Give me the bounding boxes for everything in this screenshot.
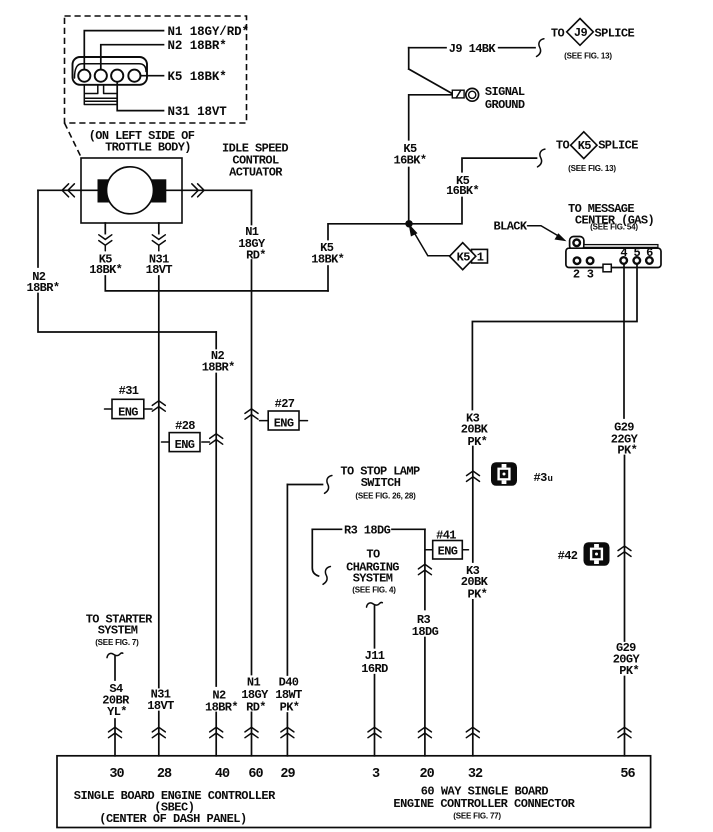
svg-text:SPLICE: SPLICE xyxy=(595,26,635,40)
svg-text:2: 2 xyxy=(573,267,580,281)
label N1 18GY RD* (lower) xyxy=(241,675,269,714)
inline connector marks on N1 xyxy=(245,409,258,419)
wire J9 14BK left segment xyxy=(409,47,446,49)
connector C1 cavity 1 xyxy=(78,70,90,82)
svg-text:SPLICE: SPLICE xyxy=(598,139,638,153)
svg-text:(SEE FIG. 77): (SEE FIG. 77) xyxy=(453,812,501,821)
svg-text:ACTUATOR: ACTUATOR xyxy=(229,166,283,180)
label N1 18GY RD* (upper) xyxy=(238,225,266,262)
wire N31 brush drop xyxy=(158,223,160,234)
svg-text:18BR*: 18BR* xyxy=(202,360,235,374)
svg-text:#31: #31 xyxy=(119,384,139,398)
connector C2 pin 5 xyxy=(634,257,641,264)
splice identifier K5-1 with arrow to junction xyxy=(409,224,488,270)
label IDLE SPEED CONTROL ACTUATOR xyxy=(222,142,288,180)
wire J9 branch diagonal xyxy=(409,48,452,94)
wire to stop lamp switch xyxy=(287,484,322,486)
svg-text:40: 40 xyxy=(215,767,230,782)
svg-text:RD*: RD* xyxy=(246,701,266,715)
wire N2 left drop xyxy=(37,190,39,267)
bottom connector marks K3 xyxy=(466,727,479,737)
connector C1 cavity 2 xyxy=(95,70,107,82)
wire to charging system branch xyxy=(312,529,318,576)
svg-text:N31 18VT: N31 18VT xyxy=(168,105,228,119)
svg-text:YL*: YL* xyxy=(107,705,127,719)
svg-text:16BK*: 16BK* xyxy=(393,153,426,167)
bottom connector marks N31 xyxy=(152,727,165,737)
dashed leader from inset box to actuator xyxy=(65,123,82,157)
svg-text:PK*: PK* xyxy=(280,701,300,715)
svg-text:(CENTER OF DASH PANEL): (CENTER OF DASH PANEL) xyxy=(99,812,246,826)
label K5 16BK* (branch) xyxy=(446,174,479,198)
label 60 WAY SINGLE BOARD ENGINE CONTROLLER CONNECTOR xyxy=(393,785,575,821)
svg-text:6: 6 xyxy=(646,246,653,260)
svg-text:BLACK: BLACK xyxy=(494,220,528,234)
wire G29 from pin 4 xyxy=(623,264,625,418)
dashed inset box (throttle body detail) xyxy=(65,16,247,123)
svg-text:3: 3 xyxy=(372,767,380,782)
connector C2 pin 6 xyxy=(646,257,653,264)
svg-text:#42: #42 xyxy=(558,549,578,563)
wire J11 to pin 3 xyxy=(374,675,376,756)
engine connection box #27 ENG xyxy=(260,411,308,430)
wire K5 16BK up from junction xyxy=(408,168,410,224)
wire lead cavity2 to N2 label xyxy=(101,45,164,70)
wire S4 to pin 30 xyxy=(114,719,116,756)
label BLACK with arrow to connector xyxy=(494,220,567,242)
inline connector marks left xyxy=(62,184,74,197)
off-page brace K5 xyxy=(538,149,545,167)
connector C2 pin 2 xyxy=(574,257,581,264)
wire J9 14BK right segment xyxy=(499,47,535,49)
wire G29 mid xyxy=(624,456,626,756)
bottom connector marks D40 xyxy=(281,727,294,737)
svg-text:ENG: ENG xyxy=(274,416,294,430)
svg-text:(SEE FIG. 54): (SEE FIG. 54) xyxy=(590,222,638,231)
svg-text:TO: TO xyxy=(551,26,565,40)
connector C1 cavity 3 xyxy=(111,70,123,82)
svg-text:GROUND: GROUND xyxy=(485,98,525,112)
inline connector marks on N31 xyxy=(152,401,165,411)
svg-text:J9 14BK: J9 14BK xyxy=(449,42,497,56)
grommet #42 xyxy=(584,542,610,566)
svg-text:TO: TO xyxy=(366,548,380,562)
svg-text:(SEE FIG. 13): (SEE FIG. 13) xyxy=(564,52,612,61)
svg-text:18BK*: 18BK* xyxy=(89,263,122,277)
wire K3 to pin 32 xyxy=(472,600,474,756)
wire K5 branch to splice brace xyxy=(462,158,537,172)
bottom connector marks G29 xyxy=(618,727,631,737)
wire K5 brush to bus xyxy=(105,276,328,291)
svg-text:PK*: PK* xyxy=(617,444,637,458)
4-way connector C1 (throttle body) xyxy=(73,57,148,105)
label J11 16RD xyxy=(361,649,388,676)
label S4 20BR YL* xyxy=(102,682,130,719)
wire D40 to pin 29 xyxy=(286,713,288,756)
svg-text:(SEE FIG. 13): (SEE FIG. 13) xyxy=(568,164,616,173)
svg-text:18VT: 18VT xyxy=(146,263,173,277)
off-page brace stop lamp xyxy=(325,476,332,494)
svg-text:#27: #27 xyxy=(275,397,295,411)
svg-text:(SEE FIG. 7): (SEE FIG. 7) xyxy=(95,638,139,647)
svg-text:4: 4 xyxy=(620,246,627,260)
label TO STOP LAMP SWITCH xyxy=(340,464,420,500)
label SINGLE BOARD ENGINE CONTROLLER (SBEC) xyxy=(74,789,276,826)
svg-text:PK*: PK* xyxy=(467,435,487,449)
svg-text:N1 18GY/RD*: N1 18GY/RD* xyxy=(168,25,249,39)
svg-text:N2 18BR*: N2 18BR* xyxy=(168,39,227,53)
svg-text:K5 18BK*: K5 18BK* xyxy=(168,70,227,84)
connector half marks on N31 brush wire xyxy=(152,235,165,245)
bottom connector marks N1 xyxy=(245,727,258,737)
off-page squiggle starter xyxy=(107,653,123,658)
svg-text:ENG: ENG xyxy=(118,405,138,419)
svg-text:#3: #3 xyxy=(534,471,548,485)
label N31 18VT (brush) xyxy=(146,252,173,277)
svg-text:J11: J11 xyxy=(365,649,385,663)
wire R3 vertical xyxy=(424,529,426,609)
off-page brace charging xyxy=(323,567,330,585)
svg-text:20: 20 xyxy=(419,767,434,782)
wire K5 16BK to signal ground xyxy=(409,95,452,140)
label R3 18DG (vertical) xyxy=(412,613,439,639)
svg-text:18BK*: 18BK* xyxy=(311,252,344,266)
svg-text:56: 56 xyxy=(620,767,635,782)
off-page squiggle J11 top xyxy=(367,602,383,607)
wire D40 xyxy=(286,485,288,676)
svg-text:J9: J9 xyxy=(574,26,588,40)
wire lead cavity4 to K5 label xyxy=(141,75,164,77)
svg-text:RD*: RD* xyxy=(246,248,266,262)
inline connector marks on N2 xyxy=(210,434,223,444)
engine connection box #31 ENG xyxy=(105,399,153,419)
svg-text:16BK*: 16BK* xyxy=(446,184,479,198)
svg-text:SYSTEM: SYSTEM xyxy=(98,624,138,638)
connector C1 cavity 4 xyxy=(128,70,140,82)
wire R3 to pin 20 xyxy=(424,638,426,756)
svg-text:K5: K5 xyxy=(578,139,592,153)
message center connector C2 xyxy=(566,237,661,272)
svg-text:R3 18DG: R3 18DG xyxy=(344,524,391,538)
svg-text:K5: K5 xyxy=(457,250,471,264)
label K5 18BK* (riser) xyxy=(311,241,344,266)
wire N2 jog to center column xyxy=(38,294,216,333)
svg-text:29: 29 xyxy=(280,767,295,782)
label TO STARTER SYSTEM xyxy=(86,612,153,647)
wire R3 18DG horizontal xyxy=(312,528,425,530)
label K3 20BK PK* (upper) xyxy=(461,412,489,449)
svg-text:1: 1 xyxy=(477,251,484,265)
bottom connector marks N2 xyxy=(210,727,223,737)
label G29 20GY PK* xyxy=(613,641,641,678)
svg-text:3: 3 xyxy=(587,267,594,281)
svg-text:60: 60 xyxy=(248,767,263,782)
label TO CHARGING SYSTEM xyxy=(346,548,399,595)
wire N1 to SBEC pin 60 xyxy=(251,260,253,756)
label TO J9 SPLICE with diamond xyxy=(551,19,635,61)
connector half marks on K5 brush wire xyxy=(99,235,112,245)
label D40 18WT PK* xyxy=(275,675,302,714)
label TO MESSAGE CENTER (GAS) xyxy=(568,202,654,232)
wire N2 center column to SBEC pin 40 xyxy=(215,374,217,756)
off-page brace J9 xyxy=(537,39,544,57)
svg-text:28: 28 xyxy=(157,767,172,782)
label N31 18VT (lower) xyxy=(147,687,174,712)
svg-text:(SEE FIG. 4): (SEE FIG. 4) xyxy=(352,585,396,594)
caption (ON LEFT SIDE OF TROTTLE BODY) xyxy=(89,129,195,155)
label N2 18BR* (center) xyxy=(202,349,235,374)
label N2 18BR* (lower) xyxy=(205,688,238,714)
label K3 20BK PK* (lower) xyxy=(461,564,489,601)
wire lead cavity1 to N1 label xyxy=(84,31,163,70)
connector C2 pin 3 xyxy=(587,257,594,264)
wire lead cavity3 to N31 label xyxy=(117,82,163,111)
label SIGNAL GROUND xyxy=(485,85,525,112)
label K5 16BK* (lower) xyxy=(393,142,426,167)
svg-text:SWITCH: SWITCH xyxy=(361,476,401,490)
wire K3 mid xyxy=(472,447,474,563)
engine connection box #28 ENG xyxy=(162,433,210,452)
wire K3 from pin 5 xyxy=(472,264,637,410)
grommet #36 xyxy=(491,462,517,486)
svg-text:ENG: ENG xyxy=(175,438,195,452)
wire S4 xyxy=(114,657,116,681)
junction dot K5 splice node xyxy=(405,220,412,227)
bottom connector marks S4 xyxy=(109,727,122,737)
wire actuator right to N1 drop xyxy=(182,189,252,191)
svg-text:18BR*: 18BR* xyxy=(26,281,59,295)
svg-text:SIGNAL: SIGNAL xyxy=(485,85,525,99)
wire N1 drop from actuator xyxy=(251,190,253,224)
bottom connector marks R3 xyxy=(418,727,431,737)
svg-text:PK*: PK* xyxy=(467,587,487,601)
inline connector marks on G29 xyxy=(618,546,631,556)
svg-text:SYSTEM: SYSTEM xyxy=(353,572,393,586)
svg-text:(SEE FIG. 26, 28): (SEE FIG. 26, 28) xyxy=(355,491,416,500)
svg-text:ENG: ENG xyxy=(438,544,458,558)
connector C2 pin top xyxy=(573,240,580,247)
label K5 18BK* (brush) xyxy=(89,252,122,277)
connector C2 pin 4 xyxy=(620,257,627,264)
label N2 18BR* (left) xyxy=(26,270,59,295)
wire K5 riser from bus xyxy=(327,266,329,291)
bottom connector marks J11 xyxy=(368,727,381,737)
wire K5 brush drop xyxy=(104,223,106,234)
idle speed control actuator M1 xyxy=(81,158,182,223)
inline connector marks on K3 xyxy=(467,471,480,481)
svg-text:32: 32 xyxy=(468,767,483,782)
wire K5 riser to junction xyxy=(328,224,409,240)
svg-text:18BR*: 18BR* xyxy=(205,701,238,715)
wire J11 xyxy=(374,606,376,648)
wire junction to K5 splice branch xyxy=(409,198,462,224)
signal ground ring terminal xyxy=(452,88,478,101)
label G29 22GY PK* xyxy=(611,421,639,458)
svg-text:18VT: 18VT xyxy=(147,699,174,713)
inline connector marks right xyxy=(192,184,204,197)
wire N31 to SBEC pin 28 xyxy=(158,276,160,756)
label TO K5 SPLICE with diamond xyxy=(556,132,638,173)
svg-text:ENGINE CONTROLLER CONNECTOR: ENGINE CONTROLLER CONNECTOR xyxy=(393,797,575,811)
svg-text:30: 30 xyxy=(109,767,124,782)
inline connector marks on R3 xyxy=(418,564,431,574)
engine connection box #41 ENG xyxy=(426,541,469,560)
svg-text:5: 5 xyxy=(633,246,640,260)
svg-text:TO: TO xyxy=(556,139,570,153)
svg-text:PK*: PK* xyxy=(619,664,639,678)
svg-text:#28: #28 xyxy=(175,419,195,433)
wire actuator left to N2 drop xyxy=(38,189,81,191)
wire N2 center column upper xyxy=(215,332,217,349)
svg-text:u: u xyxy=(548,474,553,484)
svg-text:TROTTLE BODY): TROTTLE BODY) xyxy=(105,141,191,155)
SBEC controller box xyxy=(57,756,651,828)
